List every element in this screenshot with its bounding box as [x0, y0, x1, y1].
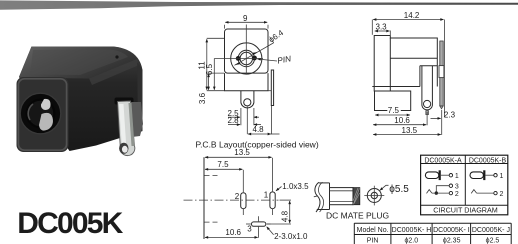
svg-text:2.3: 2.3 [444, 110, 456, 119]
photo metal lug [118, 101, 135, 156]
dim 13.5 bottom [205, 156, 272, 158]
plug hatched tip [353, 188, 360, 205]
svg-text:1: 1 [264, 190, 269, 199]
pcb horizontal centerline [214, 58, 263, 60]
dim 4.8 bottom [280, 199, 292, 201]
photo front face [17, 77, 69, 152]
PCB layout drawing [196, 14, 319, 149]
svg-text:PIN: PIN [367, 237, 379, 244]
slot 3 [252, 222, 266, 226]
pcb right pad strip [271, 70, 273, 106]
jack A pin 3 [449, 184, 452, 187]
svg-text:DC0005K- H: DC0005K- H [392, 227, 432, 234]
side lug [422, 66, 433, 110]
svg-text:DC0005K- I: DC0005K- I [433, 227, 470, 234]
svg-text:2: 2 [455, 191, 459, 198]
side view drawing [372, 11, 455, 135]
photo mold dot [115, 55, 118, 58]
svg-text:ϕ2.5: ϕ2.5 [486, 237, 500, 244]
dim 7.5 bottom [205, 168, 242, 170]
slot 1 [270, 192, 275, 209]
jack A pin 1 [449, 174, 452, 177]
photo lug slot [115, 98, 134, 105]
svg-text:9: 9 [243, 14, 248, 23]
jack B wire pin1 [485, 174, 493, 176]
jack B switch contact [471, 190, 476, 194]
svg-text:7.5: 7.5 [388, 106, 400, 115]
pcb middle ring [238, 50, 254, 66]
svg-text:10.6: 10.6 [225, 228, 241, 237]
side lug pin [426, 111, 429, 115]
svg-text:2: 2 [235, 192, 240, 201]
pcb big circle [231, 43, 262, 74]
jack A switch contact [427, 190, 432, 194]
svg-text:13.5: 13.5 [402, 126, 418, 135]
jack symbol A sleeve [425, 172, 438, 179]
side body outline [374, 36, 411, 111]
dim 11 [207, 37, 224, 39]
model table [354, 223, 511, 244]
svg-text:7.5: 7.5 [217, 160, 229, 169]
svg-text:DC MATE PLUG: DC MATE PLUG [326, 210, 389, 220]
bottom view drawing [184, 148, 310, 241]
bottom view horizontal centerline [184, 199, 279, 201]
svg-text:4.8: 4.8 [281, 210, 290, 222]
photo side seam [137, 62, 142, 133]
svg-text:1: 1 [455, 173, 459, 180]
plug handle [315, 182, 320, 212]
dim 13.5 [441, 110, 443, 135]
svg-text:2-3.0x1.0: 2-3.0x1.0 [274, 232, 308, 241]
dim 2.8 [228, 124, 240, 126]
dim 10.6 bottom [205, 236, 258, 238]
jack A junction dot [435, 191, 438, 194]
jack symbol B tip bar [483, 170, 485, 180]
DC mate plug drawing [314, 182, 409, 220]
jack A wire pin1 [441, 174, 449, 176]
photo hole reflections [41, 99, 51, 110]
bottom view left edge [203, 157, 205, 239]
svg-text:10.6: 10.6 [394, 116, 410, 125]
pcb vertical centerline [245, 25, 247, 73]
jack B pin 2 [494, 191, 497, 194]
bottom view break dashes top [205, 174, 219, 176]
side flange line [389, 38, 391, 91]
jack B pin 1 [494, 174, 497, 177]
svg-text:2: 2 [500, 191, 504, 198]
label 1.0x3.5 with leader [276, 187, 282, 191]
circuit box frame [421, 155, 508, 215]
dim 9 [224, 25, 226, 29]
circuit diagram box [421, 155, 508, 215]
side inner line [390, 57, 437, 59]
photo barrel hole [20, 93, 61, 134]
dim 7.5 [375, 114, 410, 116]
label phi 6.4 with leader [235, 43, 274, 65]
pcb body outline [225, 29, 269, 73]
svg-text:ϕ5.5: ϕ5.5 [389, 184, 409, 195]
svg-text:1.0x3.5: 1.0x3.5 [282, 182, 309, 191]
slot 2 [241, 193, 246, 209]
dim 2.5 [240, 108, 242, 125]
svg-text:DC005K: DC005K [17, 207, 123, 240]
svg-text:3: 3 [247, 224, 252, 233]
pcb center tab [241, 91, 254, 108]
jack symbol A tip bar [439, 170, 441, 180]
jack A wire pin2 [432, 192, 449, 194]
svg-text:DC0005K-A: DC0005K-A [424, 157, 462, 164]
dim 10.6 [426, 112, 428, 125]
svg-text:1: 1 [500, 173, 504, 180]
svg-text:CIRCUIT DIAGRAM: CIRCUIT DIAGRAM [433, 205, 498, 214]
svg-text:3.3: 3.3 [376, 22, 388, 31]
photo top face [19, 47, 137, 79]
jack A wire pin3 to junction [436, 186, 449, 193]
dim 4.8 [246, 107, 248, 135]
bottom view break dashes lower [205, 221, 219, 223]
svg-text:ϕ2.35: ϕ2.35 [443, 237, 461, 244]
product photo: DC jack body [17, 47, 144, 156]
svg-text:3.6: 3.6 [198, 92, 207, 104]
photo side ridge highlight [89, 59, 139, 85]
pcb pin hole [244, 99, 251, 106]
header bar [0, 0, 518, 9]
dim 6.5 [213, 59, 215, 90]
photo lug hole [119, 143, 128, 154]
label 2-3.0x1.0 with leader [267, 227, 274, 235]
plug barrel [330, 188, 354, 205]
svg-text:P.C.B Layout(copper-sided view: P.C.B Layout(copper-sided view) [196, 139, 319, 149]
label PIN with leader [258, 59, 278, 61]
svg-text:DC0005K- J: DC0005K- J [472, 227, 510, 234]
svg-text:Model No.: Model No. [357, 227, 389, 234]
side center pin [440, 41, 443, 106]
side standoff line [372, 86, 420, 88]
pcb lower section [225, 73, 269, 91]
dim 3.3 [389, 31, 391, 36]
svg-text:2.8: 2.8 [228, 116, 240, 125]
photo body silhouette [19, 47, 143, 152]
table borders [354, 222, 511, 224]
side lug hole [424, 100, 431, 107]
label phi 5.5 with leader [380, 185, 389, 190]
svg-text:DC0005K-B: DC0005K-B [469, 157, 507, 164]
jack symbol B sleeve [470, 172, 483, 179]
dim 2.3 [431, 117, 441, 119]
jack B wire pin2 [477, 192, 494, 194]
svg-text:4.8: 4.8 [253, 125, 265, 134]
dim 3.6 [208, 72, 225, 74]
dim 14.2 [371, 20, 373, 35]
svg-text:3: 3 [455, 183, 459, 190]
pcb contact dots [236, 56, 241, 61]
svg-text:13.5: 13.5 [234, 148, 250, 157]
svg-text:14.2: 14.2 [404, 11, 420, 20]
jack A pin 2 [449, 191, 452, 194]
svg-text:ϕ2.0: ϕ2.0 [404, 237, 418, 244]
plug front view crosshair circle [367, 189, 381, 203]
photo rear metal piece [128, 102, 143, 137]
